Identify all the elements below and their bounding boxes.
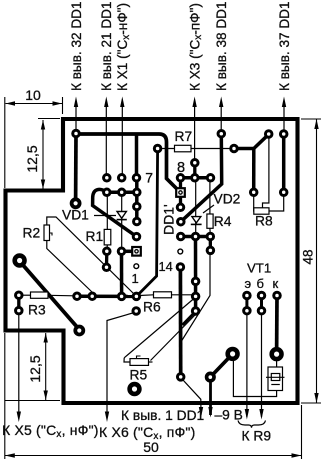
pad: junction node y=296 — [118, 293, 125, 300]
svg-text:К выв. 21 DD1: К выв. 21 DD1 — [99, 1, 114, 91]
wire to -9V supply (bottom lead-out) — [208, 377, 243, 422]
svg-text:К R9: К R9 — [242, 429, 272, 444]
board outline — [6, 119, 298, 403]
svg-text:К выв. 38 DD1: К выв. 38 DD1 — [214, 1, 229, 91]
wire to connector X5 (bottom lead-out) — [2, 311, 99, 440]
wire to connector X1 (Cx nF) — [115, 3, 132, 177]
wire to connector X6 (bottom lead-out) — [99, 312, 195, 442]
pad: trace y=296 node 1 — [74, 293, 81, 300]
diode VD1 symbol with lead and label leader — [62, 196, 127, 249]
svg-text:б: б — [257, 276, 264, 291]
pad: diagonal trace end — [178, 218, 185, 225]
pad: DD1 pin 14 — [177, 264, 184, 271]
resistor R4 outline with leads — [207, 180, 232, 234]
svg-text:R3: R3 — [28, 303, 46, 318]
dimension 10 (top-left step width) — [5, 87, 63, 188]
svg-text:R8: R8 — [255, 214, 273, 229]
pad: connector X1 node — [118, 175, 125, 182]
wire: pad B (234,148.5) to corner then diagonal up to pad C (268.7,134) — [234, 134, 269, 148]
pad: connector X6 node — [133, 308, 140, 315]
resistor R5 outline with leads and jumper diagonals — [124, 300, 196, 383]
svg-text:12,5: 12,5 — [27, 355, 43, 382]
wire: corner down to pad D (253.7,192.3) — [252, 149, 256, 193]
via: small hole at x=180 — [178, 249, 183, 254]
pad: large pad (trimmer top / VT1 collector) — [272, 349, 282, 359]
svg-text:к: к — [273, 276, 279, 291]
svg-text:VT1: VT1 — [247, 261, 271, 276]
svg-text:R6: R6 — [143, 300, 161, 315]
diode VD2 symbol with lead and label leader — [191, 180, 241, 234]
pad: DD1 pin 2 (square) — [132, 247, 141, 256]
pad: R7 left — [154, 145, 161, 152]
wire: link pads (107,251)-(106.5,267) — [105, 251, 109, 267]
svg-text:1: 1 — [132, 271, 139, 286]
wire: long diagonal trace from large pad (20,260) to large pad (79,330) — [20, 262, 79, 329]
trimmer capacitor outline (bottom right) with leads — [233, 358, 284, 397]
pad: VD2 cathode — [192, 233, 199, 240]
pad: connector X3 node — [192, 160, 199, 167]
wire: link pads row y=251 — [122, 250, 137, 254]
pad: DD1 pin 3 — [133, 233, 140, 240]
wire: main vertical trace from pin-14 pad down to pad (181,377) — [179, 267, 183, 377]
trimmer resistor R8 outline with wiper and leads — [254, 138, 284, 229]
pad: below R1 bottom — [103, 264, 110, 271]
pad: pin1-wire start — [207, 247, 214, 254]
pad: R1 bottom — [104, 248, 111, 255]
svg-text:R5: R5 — [130, 368, 148, 383]
pad: large pad on lower step — [75, 327, 83, 335]
svg-text:К X5 ("Сх, нФ"): К X5 ("Сх, нФ") — [2, 422, 99, 440]
wire: horizontal link row y=192 of DD1 left pad column — [107, 191, 137, 195]
via: small hole near pin 1 — [134, 264, 139, 269]
pad: DD1 pin 5 — [134, 203, 141, 210]
wire: VT1 emitter pad pair link — [245, 296, 248, 311]
wires to R9 (bottom lead-outs with brace) — [238, 311, 271, 444]
svg-text:R7: R7 — [175, 129, 193, 144]
svg-text:К выв. 37 DD1: К выв. 37 DD1 — [277, 1, 292, 91]
wire to pin 32 of DD1 (top lead-out) — [69, 1, 84, 133]
dimension 12,5 (upper-left notch height) — [24, 119, 60, 190]
dimension 50 (board width, bottom) — [5, 333, 302, 459]
svg-text:8: 8 — [177, 160, 185, 176]
pad: DD1 right field row-178 middle — [192, 175, 199, 182]
wire: link R3 left pads — [17, 295, 20, 310]
wire: vertical from pad (121.5,251) to junction node — [120, 251, 124, 296]
pad: DD1 pin 6 — [134, 189, 141, 196]
pad: column x=196 bottom — [192, 308, 199, 315]
svg-text:э: э — [245, 276, 252, 291]
wire: from pad 38-DD1 down then diagonal to pad (181,221.7) — [181, 134, 222, 222]
pad: row-192 left — [104, 189, 111, 196]
pad: VT1 collector — [274, 292, 281, 299]
pad: large mounting pad left — [15, 256, 25, 266]
pad: VT1 base lower — [258, 307, 265, 314]
wire: pad E (283.7,134) down to pad F (283.7,192.3) — [282, 134, 286, 192]
svg-text:К X1 ("Сх-нФ"): К X1 ("Сх-нФ") — [115, 3, 132, 91]
svg-text:DD1': DD1' — [161, 204, 177, 235]
pad: pin 21 DD1 node — [104, 175, 111, 182]
pad: column x=180 middle — [177, 204, 184, 211]
pad: VT1 base upper — [258, 292, 265, 299]
wire: VT1 collector pad down to large pad (276.6,354) — [275, 296, 279, 355]
resistor R1 outline with leads — [86, 196, 111, 250]
wire: hook from pad (107,192) and diagonal to pad (136.5,236.6) — [93, 189, 137, 236]
pad: large via below pad 32 — [72, 199, 80, 207]
svg-text:К выв. 1 DD1: К выв. 1 DD1 — [121, 408, 204, 423]
pad: DD1 right field row-178 right (R4 top) — [207, 175, 214, 182]
pad: node to pin 32 DD1 — [73, 130, 80, 137]
pad: column x=196 middle (R6 right) — [192, 293, 199, 300]
wire: pad 32-DD1 down to large via pad — [74, 133, 78, 203]
pad: VT1 emitter upper — [244, 292, 251, 299]
pad: trace y=296 node 2 — [89, 293, 96, 300]
pad: column x=196 top — [192, 278, 199, 285]
wire: diagonal from pad (196,311) joining main vertical trace — [183, 312, 196, 326]
svg-text:12,5: 12,5 — [24, 145, 40, 172]
pad: VT1 emitter lower — [244, 307, 251, 314]
pad: R6 left — [133, 293, 140, 300]
pad: R7 right (node B) — [231, 145, 238, 152]
pad: node C (R8 wiper wire) — [265, 131, 272, 138]
pad: row-236 left — [177, 233, 184, 240]
wire: vertical trace x=195.5 through pads (196,281)(196,296)(196,311) — [194, 237, 198, 312]
svg-text:К X3 ("Сх-пФ"): К X3 ("Сх-пФ") — [187, 3, 204, 91]
resistor R7 outline with leads — [158, 129, 231, 152]
pad: pin 37 DD1 node (E) — [280, 131, 287, 138]
dimension 12,5 (lower-left notch height) — [5, 333, 60, 401]
wire to pin 38 of DD1 (top lead-out) — [214, 1, 229, 132]
resistor R2 outline with leads and jumper-wire diagonals — [23, 217, 135, 294]
wire: diagonal from large pad (232.6,354) to pad (210.3,377) — [210, 354, 232, 377]
wire to pin 37 of DD1 (top lead-out) — [277, 1, 292, 133]
pad: R8 left (D) — [250, 189, 257, 196]
pad: DD1 pin 8 (square) — [176, 188, 185, 197]
svg-text:–9 В: –9 В — [215, 408, 243, 423]
pad: large isolated pad below R5 — [130, 384, 140, 394]
wire: from R7 left pad down, then diagonal to node at R6 left pad — [136, 150, 157, 296]
wire to pin 21 of DD1 (top lead-out) — [99, 1, 114, 177]
wire: horizontal link row y=178 of DD1 right pad field — [181, 176, 211, 180]
pad: large pad (trimmer loop left) — [228, 349, 238, 359]
pad: bottom of main vertical trace — [177, 374, 184, 381]
pad: R3 left upper — [16, 292, 23, 299]
pad: row-192 middle (VD1 anode) — [118, 189, 125, 196]
wire: vertical link of DD1 left pad column — [135, 178, 139, 222]
svg-text:10: 10 — [25, 87, 41, 103]
wire to connector X3 (Cx pF) — [187, 3, 204, 162]
pad: -9V node — [207, 373, 214, 380]
wire: horizontal trace y=296 R3 node to R6 left pad — [77, 295, 136, 299]
pad: DD1 right field row-178 left — [177, 175, 184, 182]
svg-text:R1: R1 — [86, 229, 104, 244]
svg-text:14: 14 — [159, 259, 173, 274]
wire: VT1 base pad pair link — [260, 296, 263, 311]
pad: R4 bottom — [207, 233, 214, 240]
pad: R8 right (F) — [280, 189, 287, 196]
pad: pin 38 DD1 node — [218, 130, 225, 137]
wire/trace: top rail from pad 32-DD1 to square pad of DD1 field — [76, 134, 179, 191]
svg-text:48: 48 — [301, 249, 316, 264]
wire: branch of top rail down to pin-7 pad — [135, 134, 139, 178]
svg-text:VD2: VD2 — [214, 192, 241, 207]
wire to pin 1 of DD1 (bottom lead-out) — [121, 253, 210, 423]
pad: VD1 cathode — [118, 248, 125, 255]
svg-text:7: 7 — [145, 170, 153, 186]
svg-text:К выв. 32 DD1: К выв. 32 DD1 — [69, 1, 84, 91]
svg-text:К X6 ("Сх, пФ"): К X6 ("Сх, пФ") — [99, 424, 195, 442]
svg-text:R4: R4 — [214, 214, 232, 229]
wire: link pads (210,236.5)-(210,250.4) — [209, 237, 212, 251]
pad: DD1 pin 4 — [134, 218, 141, 225]
wire: horizontal link row y=236.5 — [181, 235, 211, 239]
resistor R6 outline with leads — [137, 292, 193, 315]
wire: vertical link column x=180.5 — [179, 178, 182, 208]
dimension 48 (board height, right side) — [301, 119, 322, 403]
pad: DD1 pin 7 — [133, 175, 140, 182]
wire: link X3 pad down to row y=178 — [193, 163, 196, 178]
resistor R3 outline with leads — [19, 292, 74, 318]
svg-text:R2: R2 — [23, 226, 41, 241]
pad: connector X5 node — [16, 307, 23, 314]
svg-text:VD1: VD1 — [62, 208, 89, 223]
